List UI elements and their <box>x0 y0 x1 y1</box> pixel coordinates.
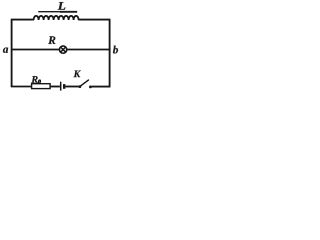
wire battery to switch <box>65 86 79 88</box>
wire right vertical <box>109 20 111 87</box>
wire middle left (a to lamp) <box>11 49 60 51</box>
wire left vertical <box>11 20 13 87</box>
wire top-left segment <box>11 19 34 21</box>
switch K contact dot <box>89 86 92 89</box>
wire switch to right corner <box>91 86 110 88</box>
inductor L coil <box>34 16 79 20</box>
node b <box>113 46 118 54</box>
resistor R0 box <box>32 84 50 89</box>
label R <box>48 36 55 44</box>
battery short plate <box>63 84 65 89</box>
wire resistor to battery <box>50 86 60 88</box>
label L <box>58 2 66 9</box>
node a <box>3 48 8 53</box>
label R0 <box>31 76 37 83</box>
wire middle right (lamp to b) <box>67 49 111 51</box>
lamp R cross <box>61 47 66 52</box>
inductor iron core bar <box>38 11 77 13</box>
battery long plate <box>60 82 62 91</box>
wire bottom-left segment <box>11 86 32 88</box>
switch K pivot dot <box>79 85 82 88</box>
wire top-right segment <box>78 19 110 21</box>
lamp R circle <box>59 46 66 53</box>
switch K blade <box>80 80 89 87</box>
label K <box>74 71 81 78</box>
